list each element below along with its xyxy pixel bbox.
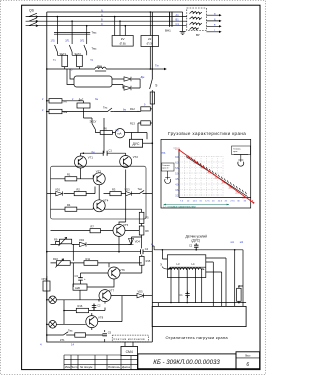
relay KV box bbox=[112, 36, 133, 47]
svg-text:6м: 6м bbox=[123, 109, 126, 112]
wire row R16 bbox=[64, 300, 105, 325]
horizontal line A with current transformer bbox=[47, 67, 164, 71]
resistor R5 vertical bbox=[139, 212, 144, 223]
transformer box bbox=[167, 255, 205, 278]
wire row R9/VD2 bbox=[51, 235, 142, 261]
svg-text:6: 6 bbox=[246, 362, 249, 368]
wire: phase C bbox=[26, 25, 187, 27]
resistor R6 bbox=[100, 131, 112, 135]
wire row VD1/R2 bbox=[47, 187, 153, 194]
svg-text:14: 14 bbox=[71, 342, 75, 346]
resistor R14 vertical right bbox=[140, 256, 145, 265]
red load curve bbox=[179, 150, 253, 203]
svg-text:2Л1: 2Л1 bbox=[65, 40, 70, 43]
optocoupler OP1 bbox=[43, 281, 50, 291]
diode Bm1 bbox=[124, 77, 131, 81]
wire: top control line N bbox=[47, 11, 183, 13]
svg-text:R13: R13 bbox=[130, 121, 135, 125]
svg-text:С2: С2 bbox=[97, 303, 101, 307]
svg-text:ДУС: ДУС bbox=[133, 142, 140, 146]
contactor KM main contacts bbox=[57, 37, 86, 45]
capacitor C1 bbox=[103, 151, 107, 156]
svg-text:Тмс: Тмс bbox=[92, 31, 98, 35]
resistor R8 vertical bbox=[139, 226, 144, 235]
svg-text:R9: R9 bbox=[54, 238, 58, 242]
svg-text:22: 22 bbox=[148, 37, 152, 41]
svg-text:(П.В): (П.В) bbox=[120, 41, 126, 45]
svg-text:Тмс: Тмс bbox=[68, 329, 73, 333]
red value labels along curve bbox=[175, 148, 254, 203]
capacitor C3 electrolytic bbox=[78, 278, 83, 280]
transistor VT3 bbox=[93, 173, 105, 185]
svg-text:R16: R16 bbox=[78, 304, 83, 308]
svg-text:R1: R1 bbox=[67, 173, 71, 177]
ground at end of N line bbox=[180, 12, 186, 35]
wire C1 row bbox=[81, 118, 126, 156]
diode VD3 bbox=[126, 191, 132, 195]
diode Bm2 bbox=[124, 86, 131, 90]
resistor R11 bbox=[84, 261, 98, 266]
coil Dim bbox=[95, 67, 106, 69]
resistor R3 bbox=[110, 192, 121, 196]
force sensor link box DUS bbox=[130, 139, 143, 147]
left measuring rows bbox=[47, 101, 153, 112]
svg-text:Тм: Тм bbox=[155, 63, 159, 67]
capacitor C2 sensor bbox=[194, 243, 199, 250]
diode VD4 vertical bbox=[129, 239, 134, 245]
wire row R4 bbox=[51, 185, 142, 213]
svg-text:R5: R5 bbox=[145, 216, 149, 220]
transistor VT4 bbox=[93, 200, 105, 212]
resistor R2 bbox=[74, 192, 86, 196]
svg-text:А: А bbox=[101, 13, 103, 17]
title block table lines bbox=[64, 355, 138, 364]
svg-text:Rм: Rм bbox=[64, 110, 68, 114]
switch S on right bus bbox=[150, 79, 153, 92]
svg-text:ЭКСУ: ЭКСУ bbox=[90, 119, 97, 123]
svg-text:R15: R15 bbox=[146, 259, 151, 263]
wire EKCY-R6 row bbox=[84, 112, 93, 124]
transistor VT8 bbox=[86, 316, 98, 328]
capacitor C2 bbox=[92, 304, 97, 311]
chart box bbox=[161, 139, 251, 208]
disconnect switch QS blades bbox=[29, 13, 37, 26]
resistor R sensor vertical bbox=[237, 288, 242, 301]
sensor wiring verticals bbox=[152, 262, 246, 306]
wire lamp1 row bbox=[47, 290, 137, 303]
rounded filter box bbox=[74, 76, 112, 87]
transistor VT2 bbox=[120, 156, 132, 168]
svg-text:QS: QS bbox=[29, 9, 35, 13]
svg-text:VT3: VT3 bbox=[96, 170, 102, 174]
transistor VT7 bbox=[99, 290, 111, 302]
diode VD1 bbox=[56, 191, 63, 195]
wire row R7/VT5 bbox=[51, 170, 142, 231]
svg-text:(П.Э): (П.Э) bbox=[147, 42, 153, 46]
svg-text:А1: А1 bbox=[176, 13, 180, 17]
svg-text:ВН1: ВН1 bbox=[165, 29, 171, 33]
svg-text:VD1: VD1 bbox=[55, 187, 61, 191]
potentiometer R9 bbox=[60, 239, 72, 244]
svg-text:Дата: Дата bbox=[121, 365, 130, 369]
resistor Rm bbox=[49, 109, 62, 113]
wire: phase B bbox=[26, 20, 187, 22]
svg-text:ход: ход bbox=[162, 152, 166, 154]
svg-text:VT5: VT5 bbox=[123, 223, 129, 227]
rectifier unit BY dashed box bbox=[187, 8, 207, 31]
svg-text:В: В bbox=[101, 18, 103, 22]
BY winding coils bbox=[190, 11, 202, 30]
designation box bbox=[138, 354, 237, 369]
capacitor C4 right bbox=[47, 236, 153, 251]
wire row2 bbox=[47, 108, 105, 112]
svg-text:R10: R10 bbox=[53, 257, 58, 261]
svg-text:ВУ: ВУ bbox=[196, 33, 200, 37]
hour counter dashed box bbox=[112, 335, 148, 342]
diode VD8 bbox=[137, 293, 144, 297]
svg-text:Грузовые характеристики крана: Грузовые характеристики крана bbox=[168, 131, 246, 136]
transistor VT5 bbox=[113, 224, 125, 236]
svg-text:Лист: Лист bbox=[245, 354, 251, 358]
svg-text:Дим: Дим bbox=[97, 64, 102, 68]
svg-text:R3: R3 bbox=[112, 187, 116, 191]
arrow Tm out of box bbox=[152, 68, 164, 70]
sensor DnG bbox=[77, 103, 90, 108]
svg-text:VT7: VT7 bbox=[109, 288, 115, 292]
svg-text:№ докум.: № докум. bbox=[80, 365, 93, 369]
connector BH1 bars bbox=[170, 12, 172, 27]
junction dots amplifier bbox=[46, 68, 153, 336]
resistor R1 bbox=[65, 177, 77, 181]
svg-text:С1: С1 bbox=[109, 149, 113, 153]
svg-text:VD4: VD4 bbox=[135, 240, 141, 244]
blue x-axis labels bbox=[180, 201, 247, 203]
svg-text:S: S bbox=[155, 83, 157, 87]
wire: phase A bbox=[26, 16, 187, 18]
svg-text:С т. грузовые характеристики: С т. грузовые характеристики bbox=[163, 206, 196, 209]
brake magnet EmT1 bbox=[62, 55, 68, 66]
counter CM4 box bbox=[121, 346, 138, 355]
lamp HL1 bbox=[49, 296, 57, 304]
wire drops from phases bbox=[57, 17, 86, 32]
transistor VT1 bbox=[75, 156, 87, 168]
svg-text:VD2: VD2 bbox=[79, 238, 85, 242]
svg-text:Счетчик моточасов: Счетчик моточасов bbox=[114, 337, 146, 341]
svg-text:Тмс: Тмс bbox=[92, 46, 98, 50]
resistor R4 bbox=[65, 207, 77, 211]
contact Tnc bbox=[105, 108, 114, 112]
grid dotted bbox=[179, 157, 223, 198]
resistor Rb bbox=[49, 99, 62, 103]
svg-text:VD5: VD5 bbox=[138, 289, 144, 293]
svg-text:Изм: Изм bbox=[65, 365, 71, 369]
svg-text:г: г bbox=[214, 29, 215, 32]
wire row1 bbox=[47, 101, 84, 103]
junction dots on phase lines bbox=[57, 11, 152, 70]
svg-text:(ДУС): (ДУС) bbox=[192, 239, 201, 243]
junction dots C4 row bbox=[118, 251, 120, 253]
svg-text:R4: R4 bbox=[67, 203, 71, 207]
svg-text:R12: R12 bbox=[130, 107, 135, 111]
wires EmT to bottom line bbox=[57, 55, 79, 69]
block 22 box bbox=[141, 36, 159, 47]
lamp HL2 bbox=[49, 321, 57, 329]
contactor feeders bbox=[54, 17, 90, 56]
inner amplifier dashed area box bbox=[51, 166, 147, 219]
device enclosure box bbox=[47, 12, 153, 342]
svg-text:Тнс: Тнс bbox=[103, 106, 108, 110]
milliammeter mA bbox=[115, 129, 124, 138]
svg-text:1Л1: 1Л1 bbox=[51, 40, 56, 43]
svg-text:С5: С5 bbox=[108, 330, 112, 334]
resistor R12 bbox=[141, 107, 151, 111]
blue y-axis labels bbox=[175, 157, 179, 198]
resistor R7 bbox=[90, 229, 101, 233]
svg-text:R8: R8 bbox=[145, 229, 149, 233]
svg-text:крюк 5 т: крюк 5 т bbox=[162, 168, 169, 170]
wire row R1 bbox=[51, 168, 94, 179]
resistor R13 bbox=[141, 121, 151, 125]
dimension arrow under axis bbox=[164, 204, 230, 206]
svg-text:АиВ: АиВ bbox=[75, 286, 80, 290]
resistor R16 bbox=[76, 308, 88, 312]
terminal strip block bbox=[152, 306, 246, 326]
svg-text:С: С bbox=[101, 22, 103, 26]
transistor VT6 bbox=[108, 267, 120, 279]
svg-text:м1: м1 bbox=[231, 240, 235, 244]
svg-text:10.0: 10.0 bbox=[175, 148, 180, 150]
potentiometer R10 bbox=[56, 261, 70, 266]
svg-text:VD3: VD3 bbox=[125, 187, 131, 191]
diode VD2 bbox=[79, 242, 86, 246]
sensor top bus bbox=[154, 246, 243, 306]
left crane trolley icon bbox=[162, 163, 175, 171]
red point markers bbox=[178, 149, 254, 204]
svg-text:R2: R2 bbox=[77, 187, 81, 191]
svg-text:Rб: Rб bbox=[64, 99, 68, 103]
wire Tnc to R12 bbox=[114, 109, 153, 112]
svg-text:Тмс: Тмс bbox=[138, 187, 143, 191]
svg-text:С4: С4 bbox=[145, 247, 149, 251]
svg-text:С3: С3 bbox=[75, 274, 79, 278]
svg-text:Подпись: Подпись bbox=[108, 365, 120, 369]
BY output wires with arrows bbox=[206, 15, 219, 32]
svg-text:В1: В1 bbox=[176, 17, 180, 21]
sheet box bbox=[236, 352, 260, 369]
wire stubs to KV bbox=[115, 17, 126, 36]
fuse on right bus bbox=[150, 92, 154, 104]
svg-text:КБ - 309КЛ.00.00.00033: КБ - 309КЛ.00.00.00033 bbox=[153, 359, 220, 366]
svg-text:R7: R7 bbox=[91, 224, 95, 228]
capacitor C1 sensor bbox=[185, 292, 189, 298]
svg-text:Лист: Лист bbox=[70, 365, 79, 369]
lamp driver box bbox=[73, 284, 87, 290]
contact Tmc bottom + resistor bbox=[47, 330, 105, 342]
wire VT6 row bbox=[73, 263, 142, 287]
svg-text:КV: КV bbox=[121, 37, 125, 41]
svg-text:1М: 1М bbox=[115, 130, 118, 133]
svg-text:Ограничитель нагрузки крана: Ограничитель нагрузки крана bbox=[166, 335, 229, 340]
right crane trolley icon bbox=[232, 146, 251, 155]
wire stub 22 box bbox=[149, 12, 151, 69]
blue output labels bbox=[214, 13, 216, 33]
junction dots sensor bus bbox=[162, 249, 240, 303]
brake magnet EmT2 bbox=[77, 55, 83, 66]
svg-text:крюк: крюк bbox=[233, 151, 237, 153]
contact Tmc mid bbox=[137, 190, 146, 193]
svg-text:Дм: Дм bbox=[141, 75, 145, 79]
svg-text:КТ1: КТ1 bbox=[60, 338, 65, 342]
svg-text:VT4: VT4 bbox=[103, 198, 109, 202]
svg-text:ДнГ: ДнГ bbox=[79, 98, 84, 102]
drawing frame bbox=[22, 5, 260, 369]
svg-text:VT6: VT6 bbox=[120, 268, 126, 272]
blue contact terminal labels bbox=[51, 40, 94, 72]
svg-text:3м: 3м bbox=[95, 98, 98, 101]
switch EKCY bbox=[92, 124, 100, 133]
svg-text:VT2: VT2 bbox=[133, 155, 139, 159]
svg-text:N: N bbox=[101, 8, 103, 12]
svg-text:VT8: VT8 bbox=[98, 316, 104, 320]
capacitor C5 bbox=[103, 334, 108, 336]
wires from filter box to diodes bbox=[67, 69, 140, 88]
boom hatched line bbox=[186, 156, 248, 197]
svg-text:С1: С1 bbox=[176, 22, 180, 26]
resistor Rt bottom bbox=[75, 333, 86, 337]
axes bbox=[179, 150, 251, 198]
blue phase labels bbox=[101, 8, 179, 26]
svg-text:3Л1: 3Л1 bbox=[80, 40, 85, 43]
wire row R10/R11 bbox=[51, 255, 142, 273]
link wire from device to sensor bbox=[152, 245, 154, 247]
contactor drawbar bbox=[54, 32, 90, 37]
title block texts bbox=[65, 365, 131, 369]
svg-text:м2: м2 bbox=[240, 240, 244, 244]
blue terminal marks left rows bbox=[42, 98, 146, 133]
wire lamp2 row bbox=[47, 296, 122, 330]
svg-text:СМ4: СМ4 bbox=[126, 350, 133, 354]
svg-text:R11: R11 bbox=[86, 257, 91, 261]
svg-text:VT1: VT1 bbox=[88, 155, 94, 159]
wire R13 row bbox=[138, 123, 152, 133]
svg-text:Э: Э bbox=[160, 263, 162, 267]
